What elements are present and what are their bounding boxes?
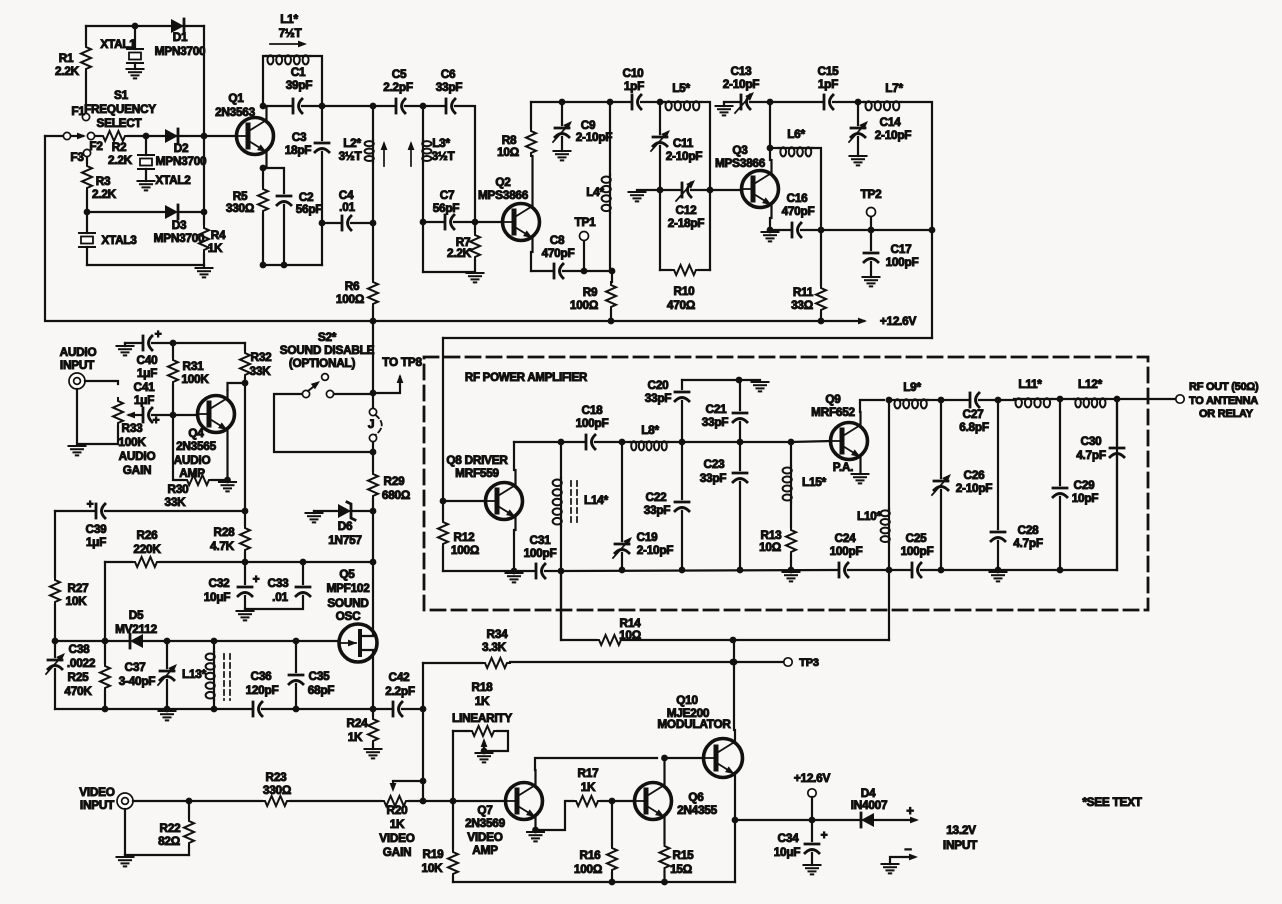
wire minus lead <box>882 841 919 873</box>
svg-text:100K: 100K <box>181 372 209 386</box>
svg-text:C38: C38 <box>69 642 91 656</box>
svg-text:C27: C27 <box>963 407 985 421</box>
potentiometer R20 <box>379 796 415 859</box>
wire L9 to C27 <box>941 399 968 401</box>
node BT (C37 bottom) <box>164 706 171 713</box>
wire PA feed drop <box>888 570 890 640</box>
wire R29 to sound osc <box>372 511 374 562</box>
svg-text:L6*: L6* <box>787 127 805 141</box>
svg-text:33pF: 33pF <box>644 503 671 517</box>
svg-text:XTAL2: XTAL2 <box>155 173 191 187</box>
resistor R29 <box>368 471 410 511</box>
node C (D2 cathode) <box>201 133 208 140</box>
svg-text:33K: 33K <box>250 364 272 378</box>
diode D4 <box>851 786 888 827</box>
inductor L8 <box>630 423 682 450</box>
resistor R34 <box>482 627 510 668</box>
svg-text:C7: C7 <box>440 188 455 202</box>
svg-text:R34: R34 <box>487 627 509 641</box>
svg-text:470pF: 470pF <box>542 246 575 260</box>
node CG (R16 top) <box>609 798 616 805</box>
inductor L13 <box>182 641 230 709</box>
svg-text:GAIN: GAIN <box>123 463 152 477</box>
svg-text:L11*: L11* <box>1018 377 1042 391</box>
svg-text:*SEE TEXT: *SEE TEXT <box>1082 795 1142 809</box>
svg-text:L5*: L5* <box>672 81 690 95</box>
svg-text:RF OUT (50Ω): RF OUT (50Ω) <box>1189 381 1259 393</box>
svg-text:C34: C34 <box>778 831 800 845</box>
capacitor C34 <box>774 820 828 865</box>
svg-text:TP2: TP2 <box>861 187 883 201</box>
wire Q6 collector <box>663 758 665 785</box>
node BD (R31 top) <box>170 340 177 347</box>
inductor L10 <box>857 400 890 570</box>
svg-text:L3*: L3* <box>432 136 450 150</box>
svg-text:R28: R28 <box>214 525 236 539</box>
node AH (Q8 base) <box>440 498 447 505</box>
resistor R11 <box>791 230 826 321</box>
svg-text:VIDEO: VIDEO <box>467 830 503 844</box>
svg-text:R17: R17 <box>578 766 600 780</box>
svg-text:TP3: TP3 <box>799 657 819 669</box>
wire C40 to R32 <box>173 342 245 344</box>
svg-text:100Ω: 100Ω <box>570 298 598 312</box>
node S (L4 top) <box>607 99 614 106</box>
wire sound osc bottom <box>55 708 391 710</box>
resistor R13 <box>759 527 796 570</box>
capacitor C30 <box>1076 399 1124 570</box>
node PA bus <box>995 567 1002 574</box>
node BP (C37 top) <box>164 638 171 645</box>
node W (R9 bottom) <box>608 318 615 325</box>
svg-text:33Ω: 33Ω <box>791 298 813 312</box>
wire Q8 collector <box>514 442 584 485</box>
capacitor C19 trimmer <box>613 442 673 570</box>
ground (video jack) <box>117 857 134 866</box>
svg-text:FREQUENCY: FREQUENCY <box>84 102 156 116</box>
ground (C12) <box>629 190 661 201</box>
node AV (C30 top) <box>1114 396 1121 403</box>
svg-text:1pF: 1pF <box>818 77 838 91</box>
svg-text:L9*: L9* <box>903 380 921 394</box>
node BO (R25 top) <box>102 638 109 645</box>
svg-text:C12: C12 <box>676 203 698 217</box>
wire Q2 emitter <box>531 238 533 271</box>
svg-text:C17: C17 <box>891 242 913 256</box>
svg-text:2-10pF: 2-10pF <box>723 77 760 91</box>
svg-text:R19: R19 <box>423 847 445 861</box>
ground (XTAL2) <box>138 181 155 190</box>
wire audio jack <box>77 381 118 444</box>
svg-text:VIDEO: VIDEO <box>379 831 415 845</box>
capacitor C18 <box>576 403 609 449</box>
svg-text:R9: R9 <box>583 285 598 299</box>
node AS (C26 top) <box>938 397 945 404</box>
svg-text:MPF102: MPF102 <box>326 581 370 595</box>
capacitor C1 <box>263 65 322 113</box>
switch S1 common contact <box>63 132 70 139</box>
crystal XTAL3 <box>79 212 137 265</box>
wire emitter to R17 <box>536 801 574 830</box>
svg-text:VIDEO: VIDEO <box>79 785 115 799</box>
ground (C34) <box>804 865 821 874</box>
svg-text:1K: 1K <box>208 241 223 255</box>
svg-text:470K: 470K <box>64 684 92 698</box>
resistor R10 <box>660 265 710 312</box>
svg-text:10pF: 10pF <box>1072 491 1099 505</box>
node Q (Q2 base node) <box>472 219 479 226</box>
capacitor C9 trimmer <box>553 102 612 151</box>
svg-text:15Ω: 15Ω <box>670 862 692 876</box>
wire video line <box>133 800 506 802</box>
wire L8 to Q9 base <box>682 441 791 443</box>
inductor L11 <box>1014 377 1074 407</box>
node Z (Q3 collector rail) <box>767 99 774 106</box>
svg-text:TO TP8: TO TP8 <box>382 355 422 369</box>
inductor L2 <box>339 106 388 223</box>
svg-text:68pF: 68pF <box>308 683 335 697</box>
node B (XTAL2 top) <box>143 133 150 140</box>
wire C12 to Q3 base <box>710 189 742 191</box>
node CH (Q10 base line) <box>661 755 668 762</box>
svg-text:C41: C41 <box>134 380 156 394</box>
resistor R24 <box>347 709 378 749</box>
svg-text:2N3565: 2N3565 <box>176 439 217 453</box>
wire video bottom bus <box>453 881 735 883</box>
transistor Q1 <box>215 91 273 155</box>
node AB (C16 right) <box>818 227 825 234</box>
svg-text:SOUND DISABLE: SOUND DISABLE <box>280 343 375 357</box>
svg-text:Q5: Q5 <box>339 567 355 581</box>
svg-text:Q3: Q3 <box>732 143 748 157</box>
node X (C12 left) <box>657 187 664 194</box>
node D (R3 bottom) <box>84 209 91 216</box>
svg-text:MPS3866: MPS3866 <box>715 156 766 170</box>
wire C10 to L5 <box>641 101 664 103</box>
svg-text:C15: C15 <box>818 64 840 78</box>
svg-text:INPUT: INPUT <box>60 358 95 372</box>
node BV (C35 bottom) <box>293 706 300 713</box>
svg-text:2-10pF: 2-10pF <box>666 149 703 163</box>
capacitor C13 trimmer <box>723 64 822 113</box>
svg-text:33K: 33K <box>165 495 187 509</box>
svg-text:1K: 1K <box>581 780 596 794</box>
wire R18 left drop <box>452 731 454 801</box>
node E (D3 junction) <box>201 209 208 216</box>
svg-text:3-40pF: 3-40pF <box>119 674 156 688</box>
node CK (R16 bottom) <box>609 879 616 886</box>
node M <box>281 262 288 269</box>
svg-text:D5: D5 <box>129 608 144 622</box>
node K (C4 left) <box>319 220 326 227</box>
node U (TP1) <box>581 268 588 275</box>
ground (R24) <box>365 749 382 758</box>
svg-text:+: + <box>906 803 914 818</box>
svg-text:INPUT: INPUT <box>943 838 978 852</box>
svg-text:2-10pF: 2-10pF <box>576 130 613 144</box>
capacitor C2 <box>263 168 322 265</box>
svg-text:OR RELAY: OR RELAY <box>1199 408 1254 420</box>
svg-text:AMP: AMP <box>472 843 498 857</box>
wire J to R29 <box>372 442 374 471</box>
svg-text:1K: 1K <box>390 817 405 831</box>
wire Q3 collector <box>770 102 772 173</box>
svg-text:1N757: 1N757 <box>328 533 362 547</box>
svg-text:100pF: 100pF <box>886 255 919 269</box>
wire Q9 collector <box>860 400 884 425</box>
svg-text:10Ω: 10Ω <box>619 628 641 642</box>
svg-text:+: + <box>253 572 260 586</box>
resistor R9 <box>570 271 616 321</box>
svg-text:TP1: TP1 <box>575 215 597 229</box>
wire R34 row <box>423 662 733 663</box>
svg-text:+12.6V: +12.6V <box>794 771 831 785</box>
node L <box>260 262 267 269</box>
svg-text:C5: C5 <box>392 67 407 81</box>
wire R14 row <box>561 571 889 640</box>
svg-text:3.3K: 3.3K <box>482 640 507 654</box>
inductor L6 <box>770 127 821 230</box>
node BQ (L13 top) <box>211 638 218 645</box>
inductor L12 <box>1074 377 1117 407</box>
capacitor C3 <box>285 106 329 265</box>
svg-text:R26: R26 <box>137 528 159 542</box>
node Y (C12 right) <box>707 187 714 194</box>
svg-text:680Ω: 680Ω <box>382 488 410 502</box>
wire Q6 emitter <box>663 817 665 843</box>
svg-text:2.2pF: 2.2pF <box>385 684 415 698</box>
ground (R7) <box>467 273 484 282</box>
wire C18 to L8 <box>595 441 630 443</box>
wire varactor row <box>55 640 340 642</box>
node BL (Q5 drain) <box>370 559 377 566</box>
svg-text:MPN3700: MPN3700 <box>156 154 207 168</box>
capacitor C7 <box>423 188 475 229</box>
ground (C14) <box>850 156 867 165</box>
node BE (Q4 collector) <box>242 380 249 387</box>
svg-text:D3: D3 <box>172 218 187 232</box>
svg-text:+12.6V: +12.6V <box>880 314 917 328</box>
svg-text:D2: D2 <box>174 141 189 155</box>
label Q5 MPF102 <box>326 567 370 623</box>
svg-text:10K: 10K <box>66 594 88 608</box>
node AA (L6 tap) <box>767 145 774 152</box>
svg-text:L10*: L10* <box>857 509 882 523</box>
svg-text:2.2K: 2.2K <box>55 64 80 78</box>
test point TP1 <box>575 215 597 271</box>
svg-text:120pF: 120pF <box>246 683 279 697</box>
wire RF out <box>1117 398 1176 400</box>
svg-text:C16: C16 <box>787 191 809 205</box>
capacitor C37 trimmer <box>119 641 180 709</box>
svg-text:C32: C32 <box>209 576 231 590</box>
node AI (Q8 emitter) <box>511 568 518 575</box>
svg-text:82Ω: 82Ω <box>158 834 180 848</box>
svg-text:Q9: Q9 <box>825 392 841 406</box>
svg-text:R15: R15 <box>673 848 695 862</box>
label Q10 <box>657 693 731 731</box>
svg-text:2N3569: 2N3569 <box>465 816 506 830</box>
ground (R13) <box>783 572 800 581</box>
svg-text:RF POWER AMPLIFIER: RF POWER AMPLIFIER <box>465 372 588 384</box>
ground (C13) <box>716 102 733 115</box>
node CL (R15 bottom) <box>661 879 668 886</box>
svg-text:R20: R20 <box>387 803 409 817</box>
capacitor C26 trimmer <box>932 400 992 570</box>
ground (C32) <box>237 611 254 620</box>
wire Q9 emitter <box>859 457 861 474</box>
svg-text:100K: 100K <box>118 435 146 449</box>
node F (Q1 collector) <box>260 103 267 110</box>
jumper J <box>368 408 382 441</box>
transistor Q9 PA <box>811 392 867 474</box>
transistor Q6 <box>635 783 718 820</box>
node CE (R18 wiper) <box>481 748 488 755</box>
node J (L3 top) <box>420 103 427 110</box>
svg-text:C20: C20 <box>648 378 670 392</box>
ground (C17) <box>863 277 880 286</box>
svg-text:C23: C23 <box>704 457 726 471</box>
ground (Q4) <box>219 482 236 491</box>
svg-text:56pF: 56pF <box>296 202 323 216</box>
wire Q1 bottom <box>263 264 322 266</box>
ground (C20 bus) <box>739 380 769 391</box>
svg-text:100pF: 100pF <box>830 544 863 558</box>
svg-text:SELECT: SELECT <box>96 116 142 130</box>
svg-text:Q10: Q10 <box>676 693 698 707</box>
ground (Q9) <box>852 474 869 483</box>
svg-text:33pF: 33pF <box>436 80 463 94</box>
ground (Q3) <box>762 232 779 241</box>
ground (R4) <box>196 268 213 277</box>
svg-text:R12: R12 <box>454 530 476 544</box>
node AO (L15 top) <box>788 439 795 446</box>
node BI (S2 right) <box>370 390 377 397</box>
svg-text:470Ω: 470Ω <box>667 298 695 312</box>
node BU (L13 bottom) <box>211 706 218 713</box>
wiper R20 <box>390 781 423 792</box>
wire C20 top <box>682 379 739 381</box>
svg-text:S2*: S2* <box>318 330 337 344</box>
capacitor C11 trimmer <box>651 102 702 270</box>
svg-text:1pF: 1pF <box>624 79 644 93</box>
resistor R22 <box>125 801 194 855</box>
capacitor C10 <box>623 66 645 109</box>
resistor R28 <box>210 511 250 562</box>
svg-text:R27: R27 <box>68 581 90 595</box>
svg-text:C18: C18 <box>582 403 604 417</box>
svg-text:L15*: L15* <box>802 475 827 489</box>
svg-text:18pF: 18pF <box>285 143 312 157</box>
diode D5 <box>115 608 157 648</box>
svg-text:470pF: 470pF <box>782 204 815 218</box>
svg-text:AUDIO: AUDIO <box>174 453 211 467</box>
svg-text:L1*: L1* <box>280 12 298 26</box>
wiper R18 <box>481 738 488 751</box>
dashed box RF power amplifier <box>424 357 1148 610</box>
node BR (C35 top) <box>293 638 300 645</box>
svg-text:S1: S1 <box>114 88 129 102</box>
crystal XTAL1 <box>100 26 143 69</box>
wire R17 to Q6 <box>601 800 635 802</box>
svg-text:2N3563: 2N3563 <box>215 105 256 119</box>
wire Q4 emitter <box>226 430 228 480</box>
node T (L5 left) <box>657 99 664 106</box>
svg-text:R4: R4 <box>211 228 226 242</box>
node AG (TP2) <box>868 227 875 234</box>
svg-text:.01: .01 <box>272 590 288 604</box>
svg-text:C14: C14 <box>880 115 902 129</box>
svg-text:100Ω: 100Ω <box>336 292 364 306</box>
svg-text:Q1: Q1 <box>228 91 244 105</box>
node R (C9 top) <box>559 99 566 106</box>
inductor L1 <box>263 12 322 106</box>
svg-text:R24: R24 <box>347 716 369 730</box>
svg-text:MPN3700: MPN3700 <box>155 44 206 58</box>
wire C7 riser <box>422 222 424 272</box>
resistor R23 <box>262 770 291 806</box>
node CM (C34 top) <box>809 817 816 824</box>
svg-text:C13: C13 <box>731 64 753 78</box>
ground (PA bus) <box>990 572 1007 581</box>
resistor R27 <box>50 511 89 641</box>
wire top rail crystal bank <box>86 25 204 27</box>
svg-text:C26: C26 <box>964 468 986 482</box>
wiper R33 <box>126 412 141 419</box>
node AX (C26 bottom) <box>938 567 945 574</box>
svg-text:C33: C33 <box>268 576 290 590</box>
svg-text:MODULATOR: MODULATOR <box>657 717 731 731</box>
transistor Q2 <box>478 175 540 241</box>
svg-text:Q6: Q6 <box>688 790 704 804</box>
svg-text:4.7pF: 4.7pF <box>1013 536 1043 550</box>
resistor R16 <box>574 801 617 882</box>
svg-text:13.2V: 13.2V <box>946 823 976 837</box>
svg-text:330Ω: 330Ω <box>263 783 291 797</box>
svg-text:TO ANTENNA: TO ANTENNA <box>1189 395 1258 407</box>
jack VIDEO INPUT <box>79 785 133 812</box>
resistor R30 <box>165 415 228 509</box>
svg-text:33pF: 33pF <box>700 471 727 485</box>
ground (C40) <box>117 343 134 355</box>
node AT (C28 top) <box>995 397 1002 404</box>
wire left border / +12.6V rail <box>45 136 864 321</box>
wire D3 row <box>87 211 204 213</box>
resistor R18 linearity <box>452 680 512 751</box>
capacitor C14 trimmer <box>849 102 911 156</box>
wire PA bottom bus <box>561 399 1117 571</box>
inductor L14 <box>553 442 609 571</box>
svg-text:C42: C42 <box>389 670 411 684</box>
wire Q3 emitter <box>770 205 772 230</box>
svg-text:AUDIO: AUDIO <box>60 345 97 359</box>
switch S1 contact F2 <box>87 132 103 153</box>
wire XTAL3 bottom <box>87 264 204 266</box>
svg-text:4.7pF: 4.7pF <box>1076 448 1106 462</box>
svg-text:LINEARITY: LINEARITY <box>452 711 512 725</box>
svg-text:MPN3700: MPN3700 <box>154 231 205 245</box>
node V (L4 bottom) <box>609 268 616 275</box>
wire Q10 emitter <box>734 775 736 882</box>
svg-text:220K: 220K <box>133 542 161 556</box>
svg-text:C36: C36 <box>251 669 273 683</box>
svg-text:R2: R2 <box>112 140 127 154</box>
svg-text:+: + <box>87 497 94 511</box>
svg-text:3½T: 3½T <box>339 149 363 163</box>
svg-text:56pF: 56pF <box>433 201 460 215</box>
wire Q7 emitter <box>534 817 536 830</box>
node BZ (R14 right) <box>730 637 737 644</box>
